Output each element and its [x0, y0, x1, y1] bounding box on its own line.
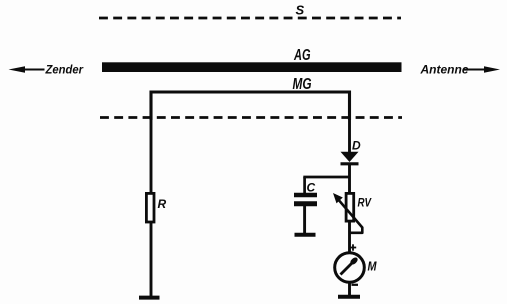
variable resistor RV	[346, 193, 354, 221]
svg-text:R: R	[158, 197, 167, 211]
wire MG to diode D	[348, 116, 351, 153]
ground (meter)	[338, 295, 360, 299]
wire meter to ground	[348, 282, 351, 297]
svg-text:RV: RV	[358, 196, 372, 210]
svg-text:M: M	[368, 260, 377, 274]
svg-text:Zender: Zender	[45, 63, 85, 77]
node MG (measuring wire)	[151, 92, 350, 120]
wire MG to resistor R	[150, 116, 153, 193]
arrow to Zender	[9, 66, 26, 73]
svg-text:AG: AG	[293, 47, 310, 64]
dashed line (lower shield)	[100, 116, 402, 119]
wire diode to RV	[348, 163, 351, 193]
ground (left)	[139, 296, 160, 300]
node AG (thick antenna ground bar)	[102, 62, 402, 72]
svg-text:Antenne: Antenne	[420, 63, 469, 77]
ground (capacitor)	[295, 233, 316, 237]
wire resistor to ground	[150, 223, 153, 297]
arrow to Antenne	[464, 68, 490, 70]
wire junction to capacitor C	[303, 176, 349, 179]
svg-text:S: S	[296, 3, 305, 18]
node S (shield dashed line)	[99, 17, 401, 20]
svg-text:C: C	[307, 181, 316, 195]
capacitor C	[294, 193, 317, 198]
resistor R	[146, 193, 154, 222]
svg-text:D: D	[352, 139, 361, 153]
minus mark	[352, 284, 359, 286]
diode D	[341, 152, 359, 162]
wire RV to meter M	[348, 223, 351, 254]
wire capacitor to ground	[303, 206, 306, 234]
RV wiper arrow	[333, 193, 343, 203]
meter M	[335, 253, 365, 283]
plus mark	[350, 247, 356, 249]
